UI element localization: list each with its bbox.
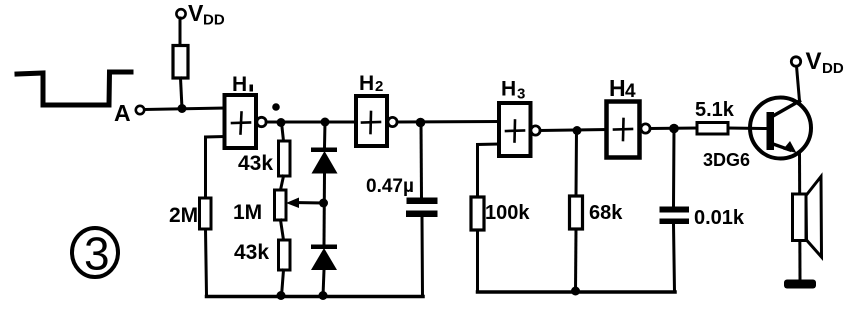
- node marker dot above H1 output: [272, 103, 280, 111]
- junction resistor chain top: [277, 118, 286, 127]
- svg-text:0.47µ: 0.47µ: [366, 176, 414, 197]
- svg-text:4: 4: [625, 81, 636, 102]
- resistor 5.1k: [697, 123, 728, 135]
- junction diode chain bottom: [319, 291, 328, 300]
- svg-text:68k: 68k: [589, 202, 623, 224]
- node A label: [114, 100, 131, 126]
- VDD terminal right: [791, 48, 844, 77]
- wire 1M to 43k lower: [281, 220, 284, 240]
- junction bottom rail right: [571, 287, 580, 296]
- resistor 43k lower: [279, 240, 291, 270]
- resistor 68k: [570, 196, 583, 229]
- junction 0.01k cap: [669, 124, 679, 134]
- svg-text:3: 3: [517, 86, 525, 103]
- resistor 100k: [471, 197, 484, 230]
- 1M wiper arrow to diode midpoint: [286, 198, 322, 209]
- 100k value label: [485, 202, 530, 224]
- bottom rail right: [478, 290, 676, 294]
- svg-text:3: 3: [84, 228, 110, 280]
- wire A to H1: [145, 108, 225, 110]
- svg-text:5.1k: 5.1k: [695, 99, 735, 121]
- bottom rail left: [207, 295, 424, 299]
- wire 0.47u cap to bottom rail: [421, 217, 425, 297]
- wire D2 to bottom rail: [323, 270, 324, 296]
- wire H4 output to 5.1k: [650, 127, 697, 131]
- diode D1: [311, 148, 338, 174]
- wire 2M to bottom rail: [206, 229, 207, 295]
- H3 output bubble: [531, 126, 540, 135]
- wire 68k to bottom rail right: [574, 229, 578, 292]
- wire junction to 68k: [575, 131, 579, 197]
- resistor 2M: [200, 198, 212, 229]
- 68k value label: [589, 202, 623, 224]
- wire diode junction down: [323, 122, 327, 148]
- gate H2: [356, 96, 387, 146]
- wire emitter to speaker and ground: [798, 153, 802, 280]
- junction diode chain top: [321, 118, 330, 127]
- svg-text:H: H: [359, 72, 374, 95]
- wire collector to VDD: [797, 66, 800, 101]
- wire H1 output to H2 input: [266, 121, 356, 124]
- junction 68k: [573, 126, 582, 135]
- svg-text:1M: 1M: [233, 201, 262, 224]
- gate H1: [225, 95, 257, 148]
- svg-text:43k: 43k: [234, 241, 269, 264]
- H4 output bubble: [641, 124, 650, 133]
- svg-text:H: H: [501, 78, 516, 101]
- svg-text:3DG6: 3DG6: [703, 150, 750, 170]
- H1 output bubble: [257, 117, 266, 126]
- 3DG6 type label: [703, 150, 750, 170]
- speaker: [793, 177, 822, 258]
- gate H3: [499, 103, 531, 156]
- ground: [784, 280, 816, 289]
- wire junction to 43k upper: [282, 123, 284, 142]
- svg-text:43k: 43k: [238, 152, 273, 175]
- wire H1 feedback stub to 2M: [206, 137, 225, 199]
- 43k lower value label: [234, 241, 269, 264]
- gate H4 label: [609, 75, 636, 102]
- H2 output bubble: [388, 117, 397, 126]
- svg-text:A: A: [114, 100, 131, 126]
- potentiometer 1M: [275, 190, 287, 220]
- gate H4: [607, 102, 640, 158]
- resistor 43k upper: [279, 141, 291, 176]
- wire H2 output to H3 input: [397, 120, 499, 124]
- 0.47u value label: [366, 176, 414, 197]
- wire pull-up resistor to node A: [181, 78, 183, 109]
- 0.01k value label: [694, 207, 745, 229]
- 2M value label: [169, 204, 198, 227]
- svg-text:2: 2: [375, 78, 383, 95]
- svg-text:DD: DD: [822, 60, 844, 77]
- wire 100k to bottom rail right: [476, 230, 479, 292]
- wire 43k upper to 1M: [281, 176, 284, 190]
- wire 0.01k cap to bottom rail right: [674, 224, 675, 292]
- svg-text:H: H: [232, 73, 247, 96]
- gate H3 label: [501, 78, 525, 103]
- 43k upper value label: [238, 152, 273, 175]
- svg-text:2M: 2M: [169, 204, 198, 227]
- wire H3 output to H4 input: [540, 130, 606, 131]
- wire junction to 0.47u cap: [420, 123, 424, 199]
- wire VDD to pull-up resistor: [179, 18, 182, 46]
- junction 0.47u cap: [416, 118, 426, 128]
- 1M value label: [233, 201, 262, 224]
- svg-text:100k: 100k: [485, 202, 530, 224]
- VDD terminal left: [176, 0, 224, 29]
- wire D1 to D2: [323, 174, 327, 245]
- junction resistor chain bottom: [277, 291, 286, 300]
- wire 43k lower to bottom rail: [282, 270, 284, 296]
- junction at pull-up resistor: [178, 104, 187, 113]
- svg-text:V: V: [806, 48, 822, 75]
- transistor Q1 3DG6: [750, 98, 811, 159]
- diode D2: [311, 245, 337, 271]
- pull-up resistor (unlabeled): [173, 46, 188, 79]
- input waveform: [17, 72, 131, 105]
- svg-text:H: H: [609, 75, 626, 101]
- svg-text:DD: DD: [203, 12, 225, 29]
- capacitor 0.47u: [406, 198, 438, 218]
- figure number 3: [72, 228, 118, 280]
- wire junction to 0.01k cap: [672, 129, 676, 207]
- svg-text:V: V: [188, 0, 204, 26]
- gate H2 label: [359, 72, 383, 95]
- gate H1 label: [232, 73, 253, 96]
- 5.1k value label: [695, 99, 735, 121]
- svg-text:0.01k: 0.01k: [694, 207, 745, 229]
- junction diode midpoint: [319, 199, 328, 208]
- wire H3 feedback stub to 100k: [478, 144, 500, 197]
- node A terminal: [136, 106, 144, 114]
- capacitor 0.01k: [660, 207, 690, 225]
- wire 5.1k to transistor base: [728, 127, 766, 131]
